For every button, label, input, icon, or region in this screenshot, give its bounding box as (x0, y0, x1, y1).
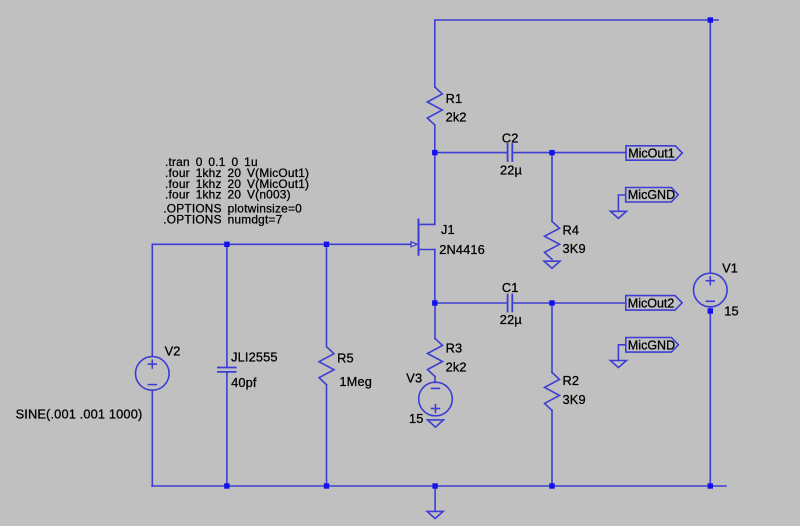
wire C1 row right (512, 302, 626, 304)
wire R1 bottom lead (434, 125, 436, 153)
capacitor JLI2555 (218, 368, 236, 372)
svg-text:1Meg: 1Meg (339, 374, 372, 389)
wire ground stub bottom (434, 486, 436, 511)
resistor R3 (428, 339, 443, 377)
svg-text:R2: R2 (563, 373, 580, 388)
wire C2 row right (512, 152, 626, 154)
junction gate R5 (324, 242, 329, 247)
wire V1 bottom lead (709, 307, 711, 486)
flag MicGND upper (626, 188, 679, 203)
svg-text:V2: V2 (165, 344, 181, 359)
junction bottom V1 (708, 483, 713, 488)
junction bottom R2 (549, 483, 554, 488)
flag MicOut1 (626, 146, 682, 160)
svg-text:R1: R1 (446, 91, 463, 106)
junction bottom R5 (324, 483, 329, 488)
junction drain node left (432, 150, 437, 155)
svg-text:MicGND: MicGND (628, 188, 675, 202)
svg-text:3K9: 3K9 (563, 241, 586, 256)
svg-text:MicOut1: MicOut1 (628, 146, 675, 160)
svg-text:.four 1khz 20 V(n003): .four 1khz 20 V(n003) (165, 188, 291, 202)
svg-text:C2: C2 (502, 131, 519, 146)
svg-text:2k2: 2k2 (446, 360, 467, 375)
ground MicGND upper (610, 211, 626, 218)
wire JLI2555 bottom lead (226, 372, 228, 486)
svg-text:3K9: 3K9 (563, 392, 586, 407)
svg-text:V1: V1 (722, 260, 738, 275)
svg-text:R3: R3 (446, 341, 463, 356)
svg-text:40pf: 40pf (231, 375, 257, 390)
ground MicGND lower (610, 361, 626, 368)
svg-text:C1: C1 (502, 280, 519, 295)
wire R5 bottom lead (326, 385, 328, 486)
svg-text:15: 15 (724, 304, 739, 319)
wire R3 bottom stub (434, 377, 436, 383)
svg-text:JLI2555: JLI2555 (231, 350, 278, 365)
wire gate rail (152, 243, 411, 245)
wire bottom rail (152, 485, 726, 487)
flag MicOut2 (626, 296, 682, 311)
wire V2 bottom lead (151, 390, 153, 486)
svg-text:22µ: 22µ (500, 312, 523, 327)
voltage source V2 (136, 357, 170, 391)
resistor R4 (545, 221, 560, 259)
junction bottom JLI2555 (224, 483, 229, 488)
wire MicGND lower stub (618, 345, 625, 361)
wire JLI2555 top lead (226, 244, 228, 367)
wire R5 top lead (326, 244, 328, 346)
svg-text:2k2: 2k2 (446, 110, 467, 125)
junction top right (708, 17, 713, 22)
wire R1 top lead (434, 20, 436, 87)
svg-text:R5: R5 (337, 350, 354, 365)
ground below R4 (544, 261, 560, 268)
ground below V3 (428, 420, 444, 427)
resistor R2 (545, 372, 560, 410)
junction V1 bottom (708, 308, 713, 313)
flag MicGND lower (626, 338, 679, 353)
wire R2 bottom lead (551, 410, 553, 486)
svg-text:SINE(.001 .001 1000): SINE(.001 .001 1000) (16, 406, 143, 421)
junction bottom ground (432, 483, 437, 488)
svg-text:MicGND: MicGND (628, 339, 675, 353)
resistor R1 (427, 87, 442, 125)
resistor R5 (319, 347, 334, 385)
svg-text:.OPTIONS numdgt=7: .OPTIONS numdgt=7 (163, 212, 282, 226)
wire JFET source (434, 250, 436, 304)
wire top rail (435, 19, 718, 21)
junction gate JLI2555 (224, 242, 229, 247)
wire V1 top (709, 20, 711, 273)
wire R4 top lead (551, 153, 553, 222)
svg-text:R4: R4 (563, 222, 580, 237)
wire R3 top lead (434, 303, 436, 339)
wire R2 top lead (551, 303, 553, 372)
transistor J1 (411, 220, 435, 255)
svg-text:MicOut2: MicOut2 (628, 297, 675, 311)
capacitor C2 (508, 144, 513, 161)
svg-text:J1: J1 (441, 222, 455, 237)
svg-text:2N4416: 2N4416 (439, 242, 485, 257)
wire V2 top lead (151, 244, 153, 356)
wire JFET drain (434, 153, 436, 225)
voltage source V3 (419, 382, 453, 416)
svg-text:22µ: 22µ (500, 162, 523, 177)
junction MicOut2 node (549, 300, 554, 305)
svg-text:V3: V3 (406, 371, 422, 386)
ground bottom center (427, 511, 443, 518)
wire MicGND upper stub (618, 195, 625, 211)
wire C2 row left (435, 152, 508, 154)
svg-text:15: 15 (409, 411, 424, 426)
capacitor C1 (508, 295, 513, 312)
wire C1 row left (435, 302, 508, 304)
junction source node (432, 300, 437, 305)
voltage source V1 (694, 273, 728, 307)
junction MicOut1 node (549, 150, 554, 155)
